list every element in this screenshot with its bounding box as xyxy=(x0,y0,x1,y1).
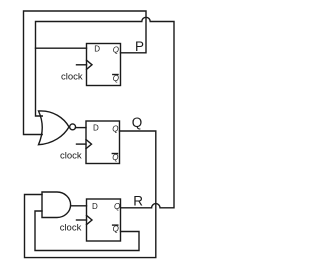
svg-text:D: D xyxy=(93,124,99,133)
wire net P: U1 Q to NOR lower input xyxy=(24,11,147,135)
svg-text:Q: Q xyxy=(113,225,119,234)
U3 clock stub wire xyxy=(77,219,87,221)
svg-text:Q: Q xyxy=(114,202,120,211)
U3 Qbar overline xyxy=(113,224,118,226)
flip-flop U1 box xyxy=(87,44,121,86)
wire net Qbar3: U3 Qbar to AND lower input xyxy=(35,211,139,251)
svg-text:Q: Q xyxy=(113,46,119,55)
svg-text:R: R xyxy=(133,193,143,208)
svg-text:clock: clock xyxy=(61,72,83,83)
wire net R branch to U1 D input xyxy=(36,47,87,49)
svg-text:clock: clock xyxy=(60,222,82,233)
wire G2 output to U3 D xyxy=(71,205,87,207)
svg-text:D: D xyxy=(92,202,98,211)
svg-text:clock: clock xyxy=(60,151,82,162)
wire net Q: U2 Q down right, along bottom, up to AND upper input xyxy=(25,131,156,258)
G1 output bubble xyxy=(70,124,76,130)
wire G1 output to U2 D xyxy=(76,127,86,129)
svg-text:Q: Q xyxy=(112,125,118,134)
svg-text:D: D xyxy=(94,45,100,54)
U1 clock stub wire xyxy=(77,64,87,66)
AND gate G2 body xyxy=(42,192,71,218)
wire net R: U3 Q up right side, across top (hop), down to NOR upper input xyxy=(36,17,175,207)
U2 Qbar overline xyxy=(112,153,117,155)
svg-text:Q: Q xyxy=(132,115,143,130)
svg-text:P: P xyxy=(135,39,144,54)
flip-flop U3 box xyxy=(87,199,121,241)
U2 clock stub wire xyxy=(77,143,87,145)
U3 clock triangle xyxy=(87,215,93,224)
svg-text:Q: Q xyxy=(112,153,118,162)
NOR gate G1 body xyxy=(39,111,70,145)
U1 clock triangle xyxy=(87,60,93,69)
flip-flop U2 box xyxy=(86,121,120,164)
svg-text:Q: Q xyxy=(113,74,119,83)
U1 Qbar overline xyxy=(113,74,118,76)
U2 clock triangle xyxy=(86,140,92,149)
